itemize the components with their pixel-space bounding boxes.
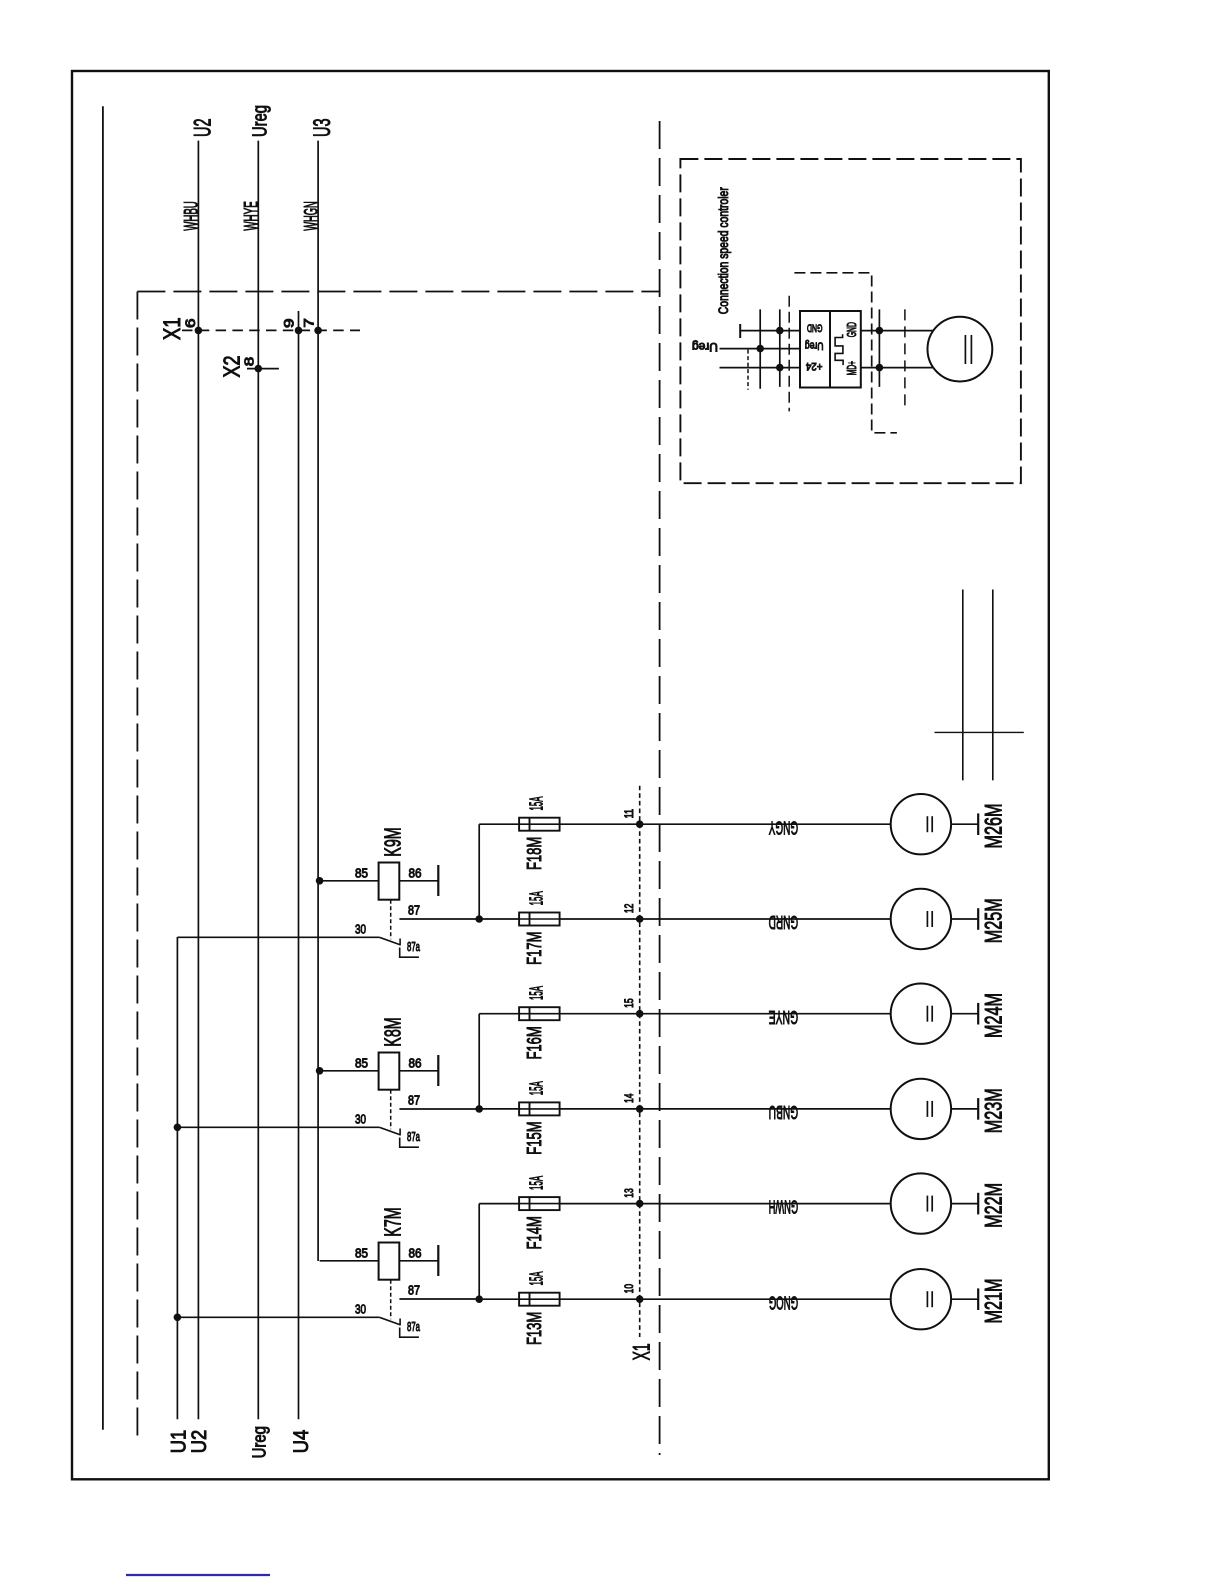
terminal K8M 87a bracket [400,1138,419,1148]
svg-text:WHYE: WHYE [240,201,262,231]
wire MD+ out [861,367,936,369]
svg-text:M23M: M23M [981,1088,1008,1133]
wire K7M pin 87 [399,1298,479,1300]
svg-text:K8M: K8M [380,1017,406,1046]
svg-text:GNGY: GNGY [768,817,798,838]
wire K9M pin 85 [320,880,379,882]
wire X1-13 to motor M22M [640,1203,891,1205]
node X1 pin 14 [636,1105,644,1113]
wire K8M pin 87 [399,1108,479,1110]
svg-text:GNBU: GNBU [769,1102,798,1123]
fuse F17M inner bar [529,913,531,926]
link K7M coil-contact (dashed) [390,1280,392,1320]
wire crossing b [779,309,781,387]
wire X1-10 to motor M21M [640,1298,891,1300]
node X1 pin 9 [295,327,303,335]
junction branch-87 [475,915,483,923]
svg-text:U3: U3 [309,118,336,137]
wire bus U4 [298,311,300,1419]
svg-text:Ureg: Ureg [692,340,718,352]
motor M25M [891,889,951,949]
svg-text:F14M: F14M [524,1216,546,1249]
junction GND-b [776,327,784,335]
node X2 pin 8 [254,365,262,373]
svg-text:87: 87 [408,1283,420,1298]
fuse F14M inner bar [529,1197,531,1210]
wire to fuse F15M [479,1108,519,1110]
wire to fuse F13M [479,1298,519,1300]
svg-text:GND: GND [807,321,823,333]
wire X1-11 to motor M26M [640,823,891,825]
svg-text:30: 30 [355,1111,366,1126]
wire K8M pin 86 [399,1070,438,1072]
svg-text:85: 85 [355,1055,368,1070]
svg-text:U2: U2 [187,1430,211,1454]
controller module U10 [800,311,861,388]
wire X1-15 to motor M24M [640,1013,891,1015]
terminal K7M 87a bracket [400,1328,419,1338]
relay K8M coil [379,1053,400,1090]
wire M24M return [951,1013,978,1015]
svg-text:Ureg: Ureg [805,340,824,352]
motor M21M [891,1269,951,1329]
svg-text:87a: 87a [407,939,420,954]
node X1 pin 7 [314,327,322,335]
svg-text:GNRD: GNRD [769,912,798,933]
mark line a [962,590,964,781]
svg-text:+24: +24 [806,360,823,372]
svg-text:GNWH: GNWH [769,1197,798,1218]
svg-text:F16M: F16M [524,1026,546,1059]
junction U3-K8M coil [316,1067,324,1075]
node X1 pin 10 [636,1295,644,1303]
fuse F15M body [519,1102,560,1115]
fuse F14M body [519,1197,560,1210]
junction +24-b [776,364,784,372]
wire X1 pins 6-7 (dashed) [182,329,360,331]
svg-text:86: 86 [409,865,422,880]
wire K9M pin 86 [399,880,438,882]
fuse F18M inner bar [529,818,531,831]
wire M22M return [951,1203,978,1205]
svg-text:87: 87 [408,903,420,918]
contact point K8M [399,1129,401,1136]
svg-text:30: 30 [355,1301,366,1316]
svg-text:15A: 15A [527,986,547,1000]
wire +24 input [720,367,801,369]
fuse F16M inner bar [529,1007,531,1020]
fuse F13M element line [519,1298,560,1300]
svg-text:87a: 87a [407,1319,420,1334]
junction U3-K9M coil [316,877,324,885]
wire to fuse F14M [479,1203,519,1205]
svg-text:11: 11 [622,809,636,819]
link K9M coil-contact (dashed) [390,900,392,940]
svg-text:M26M: M26M [981,804,1008,849]
svg-text:86: 86 [409,1245,422,1260]
motor M24M [891,984,951,1044]
svg-text:13: 13 [622,1188,636,1198]
junction U1-K7M 30 [174,1314,182,1322]
wire K7M pin 85 [320,1260,379,1262]
wire F17M to X1-12 [560,918,640,920]
svg-text:U4: U4 [289,1430,313,1454]
PWM waveform symbol [835,334,843,365]
fuse F16M body [519,1007,560,1020]
cabinet boundary left (dashed) [136,292,138,1442]
mark line b [992,590,994,781]
wire GND out [861,330,936,332]
terminal K9M 87a bracket [400,948,419,958]
svg-text:Ureg: Ureg [250,1426,270,1458]
svg-text:15A: 15A [527,796,547,810]
wire X2 pin 8 stub [247,368,279,370]
terminal bar K9M 86 [437,865,439,896]
svg-text:X1: X1 [628,1343,655,1360]
wire F16M to X1-15 [560,1013,640,1015]
wire to fuse F17M [479,918,519,920]
svg-text:15A: 15A [527,891,547,905]
speed controller enclosure (dashed) [680,159,1021,483]
svg-text:6: 6 [183,318,198,328]
svg-text:GNYE: GNYE [769,1007,798,1028]
svg-text:GNOG: GNOG [769,1292,798,1313]
terminal bar M25M [977,908,979,930]
wire to fuse F18M [479,823,519,825]
wire K8M pin 30 [177,1126,379,1128]
terminal bar K8M 86 [437,1055,439,1086]
fuse F18M body [519,818,560,831]
svg-text:M24M: M24M [981,993,1008,1038]
node X1 pin 11 [636,820,644,828]
svg-text:K9M: K9M [380,827,406,856]
svg-text:MD+: MD+ [844,361,859,375]
fuse F14M element line [519,1203,560,1205]
contact arm K8M [379,1127,400,1134]
cabinet boundary right (dashed) [659,121,661,1455]
svg-text:12: 12 [622,904,636,914]
terminal bar M24M [977,1003,979,1025]
svg-text:87a: 87a [407,1129,420,1144]
wire X1-14 to motor M23M [640,1108,891,1110]
svg-text:85: 85 [355,865,368,880]
wire bus U1 [176,937,178,1419]
svg-text:GND: GND [844,322,859,337]
wire F18M to X1-11 [560,823,640,825]
wire bus Ureg [257,141,259,1420]
svg-text:F15M: F15M [524,1121,546,1154]
wire M26M return [951,823,978,825]
wire bus U3 [317,141,319,1261]
svg-text:Ureg: Ureg [250,105,272,137]
shield dash c [904,309,906,405]
svg-text:Connection speed controler: Connection speed controler [715,187,731,314]
terminal bar K7M 86 [437,1245,439,1276]
wire Ureg input [720,348,801,350]
mark line c [935,731,1024,733]
footer link line [126,1574,270,1576]
svg-text:F18M: F18M [524,837,546,870]
node X1 pin 12 [636,915,644,923]
svg-text:15A: 15A [527,1175,547,1189]
junction MD-c [876,364,884,372]
fuse F15M element line [519,1108,560,1110]
svg-text:U2: U2 [190,118,217,137]
wire to fuse F16M [479,1013,519,1015]
wire F15M to X1-14 [560,1108,640,1110]
wire K9M pin 30 [177,936,379,938]
svg-text:15: 15 [622,998,636,1008]
wire K8M pin 85 [320,1070,379,1072]
motor M23M [891,1079,951,1139]
contact arm K9M [379,937,400,944]
wire X1-12 to motor M25M [640,918,891,920]
fuse F18M element line [519,823,560,825]
controller module divider [829,311,831,388]
svg-text:F17M: F17M [524,932,546,965]
wire M23M return [951,1108,978,1110]
wire K7M pin 30 [177,1316,379,1318]
wire M25M return [951,918,978,920]
svg-text:8: 8 [242,357,257,367]
fuse F17M body [519,913,560,926]
link K8M coil-contact (dashed) [390,1090,392,1130]
terminal bar GND input [739,324,741,338]
relay K7M coil [379,1243,400,1280]
svg-text:15A: 15A [527,1271,547,1285]
terminal bar M26M [977,813,979,835]
fuse F17M element line [519,918,560,920]
svg-text:7: 7 [302,318,317,328]
wire fuse branch [478,1204,480,1300]
shield dash b [788,296,790,412]
svg-text:M22M: M22M [981,1183,1008,1228]
junction branch-87 [475,1105,483,1113]
wire fuse branch [478,824,480,919]
contact arm K7M [379,1317,400,1324]
frame inner line [102,106,104,1429]
node X1 pin 13 [636,1200,644,1208]
svg-text:87: 87 [408,1093,420,1108]
wire crossing a [759,309,761,388]
contact point K7M [399,1319,401,1326]
wire F14M to X1-13 [560,1203,640,1205]
junction Ureg-a [756,345,764,353]
wire fuse branch [478,1014,480,1109]
wire K9M pin 87 [399,918,479,920]
cabinet boundary top (dashed) [137,291,659,293]
wire F13M to X1-10 [560,1298,640,1300]
contact point K9M [399,939,401,946]
svg-text:K7M: K7M [380,1207,406,1236]
fuse F15M inner bar [529,1102,531,1115]
shield dash a [747,350,749,390]
wire GND input [740,330,800,332]
junction branch-87 [475,1295,483,1303]
svg-text:10: 10 [622,1284,636,1294]
svg-text:14: 14 [622,1093,636,1103]
connector X1 column (dashed) [639,786,641,1337]
node X1 pin 15 [636,1010,644,1018]
motor M26M [891,794,951,854]
svg-text:9: 9 [281,318,296,328]
svg-text:85: 85 [355,1245,368,1260]
junction U1-K8M 30 [174,1124,182,1132]
svg-text:WHBU: WHBU [181,201,203,231]
fuse F16M element line [519,1013,560,1015]
svg-text:WHGN: WHGN [300,201,322,231]
terminal bar M22M [977,1193,979,1215]
svg-text:F13M: F13M [524,1312,546,1345]
drawing border frame [72,71,1049,1479]
svg-text:U1: U1 [166,1430,190,1454]
svg-text:M25M: M25M [981,898,1008,943]
wire M21M return [951,1298,978,1300]
shield boundary (dashed) [794,273,897,433]
wire crossing c [878,309,880,387]
node X1 pin 6 [195,327,203,335]
terminal bar M21M [977,1288,979,1310]
terminal bar M23M [977,1098,979,1120]
wire K7M pin 86 [399,1260,438,1262]
fuse F13M inner bar [529,1293,531,1306]
motor M22M [891,1173,951,1233]
svg-text:30: 30 [355,921,366,936]
svg-text:86: 86 [409,1055,422,1070]
svg-text:15A: 15A [527,1081,547,1095]
svg-text:M21M: M21M [981,1279,1008,1324]
wire bus U2 [197,141,199,1420]
fuse F13M body [519,1293,560,1306]
motor M (controller) [928,317,993,382]
junction GND-c [876,327,884,335]
relay K9M coil [379,863,400,900]
